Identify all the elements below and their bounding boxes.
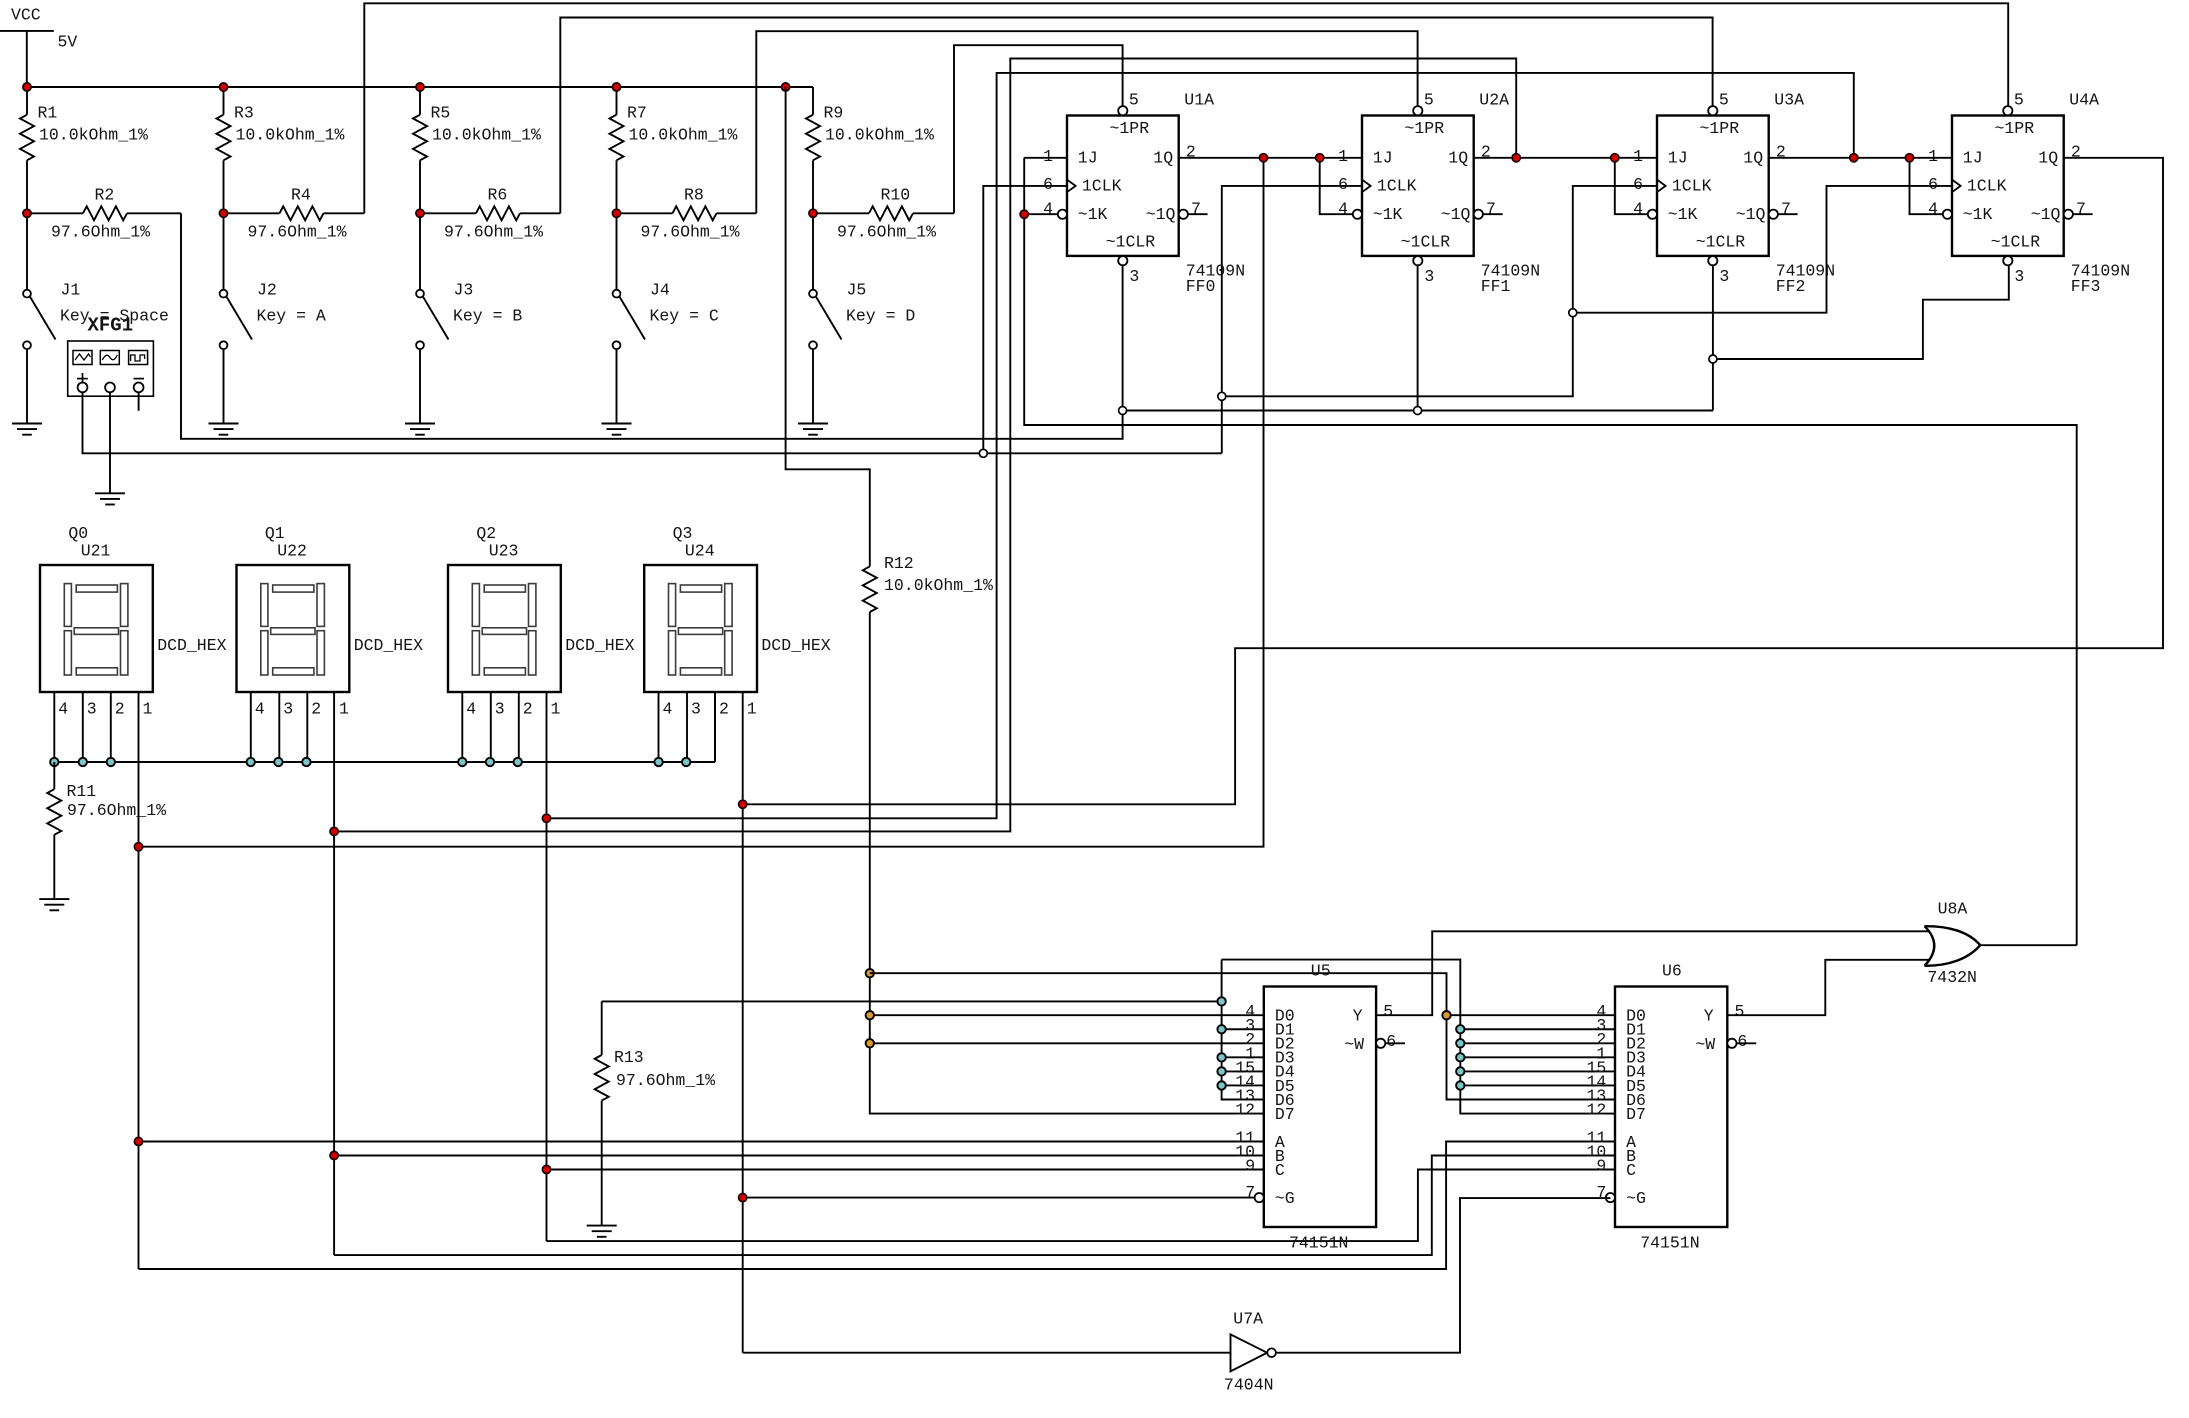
ground R11 [39,899,69,910]
wires U23 pins 4,3,2 to ground bus [462,692,519,762]
svg-text:R3: R3 [234,104,254,123]
junction dot U2A JK tie [1316,154,1324,162]
wire CLR bus [1123,410,1713,412]
svg-text:4: 4 [1043,199,1053,218]
svg-text:R5: R5 [431,104,451,123]
svg-text:Y: Y [1353,1007,1363,1026]
wire U1A ~1K tie [1024,213,1058,215]
wire display ground bus (R11 net) [54,692,715,762]
junction circles net HI at R12 [866,969,874,1048]
svg-text:1CLK: 1CLK [1967,177,2007,196]
wire U1A 1Q to U2A 1J (net Q0) [1179,157,1362,159]
svg-text:3: 3 [691,700,701,719]
svg-text:~1CLR: ~1CLR [1401,232,1451,251]
svg-text:U7A: U7A [1233,1310,1263,1329]
svg-text:U22: U22 [277,542,307,561]
svg-text:~1CLR: ~1CLR [1696,232,1746,251]
wire J3 to ground [419,349,421,423]
junction circles net LO at U6 [1456,1025,1464,1090]
junction dots resistor nodes [23,209,817,217]
svg-text:1CLK: 1CLK [1377,177,1417,196]
svg-text:Key = A: Key = A [257,307,326,326]
svg-text:Q2: Q2 [476,524,496,543]
wire U2A ~1Q stub pin 7 [1483,213,1503,215]
switch J4 Key = C [613,213,719,349]
svg-text:R10: R10 [881,186,911,205]
resistor R2 97.6Ohm [27,186,181,242]
svg-text:97.6Ohm_1%: 97.6Ohm_1% [641,223,740,242]
wire net LO bus at U5 (D1,D3,D4,D5,D6) [1222,960,1264,1100]
svg-text:U23: U23 [489,542,519,561]
svg-text:5V: 5V [58,33,78,52]
resistor R8 97.6Ohm [617,186,757,242]
svg-text:7: 7 [1191,199,1201,218]
svg-text:97.6Ohm_1%: 97.6Ohm_1% [51,223,150,242]
wire U3A ~1CLR stem pin 3 [1712,265,1714,410]
wire R13 to U5 data bus (net LO) [602,1000,1222,1002]
svg-text:1Q: 1Q [1153,149,1173,168]
svg-text:3: 3 [1129,267,1139,286]
wire U2A JK tie [1320,158,1353,214]
svg-text:J1: J1 [61,281,81,300]
junction circles display ground bus [50,758,690,766]
svg-text:1CLK: 1CLK [1082,177,1122,196]
svg-text:Q3: Q3 [673,524,693,543]
svg-text:~1PR: ~1PR [1110,119,1150,138]
svg-text:74151N: 74151N [1640,1234,1699,1253]
resistor R7 10.0kOhm [610,87,738,213]
svg-text:1J: 1J [1963,149,1983,168]
wire R12 to U5 data (net HI) [870,612,1264,1114]
svg-text:DCD_HEX: DCD_HEX [565,636,634,655]
wire J4 to ground [616,349,618,423]
svg-text:7: 7 [2076,199,2086,218]
svg-text:4: 4 [1928,199,1938,218]
wire clock branch to U3A CLK [1222,186,1657,396]
svg-text:74151N: 74151N [1289,1234,1348,1253]
wires U22 pins 4,3,2 to ground bus [251,692,307,762]
svg-text:C: C [1275,1161,1285,1180]
junction dots net Q1 [330,154,1520,1160]
wire R6 to U3A preset (net PR2) [560,18,1712,214]
svg-text:1: 1 [747,700,757,719]
svg-text:U2A: U2A [1479,91,1509,110]
svg-text:10.0kOhm_1%: 10.0kOhm_1% [432,126,541,145]
svg-text:7: 7 [1596,1183,1606,1202]
wire U4A ~1Q stub pin 7 [2073,213,2093,215]
svg-text:R12: R12 [884,554,914,573]
svg-text:U6: U6 [1662,962,1682,981]
svg-text:R13: R13 [614,1048,644,1067]
svg-text:U4A: U4A [2069,91,2099,110]
svg-text:U8A: U8A [1938,900,1968,919]
wire clock to U1A CLK [983,186,1067,453]
svg-text:3: 3 [283,700,293,719]
svg-text:2: 2 [523,700,533,719]
svg-text:~1CLR: ~1CLR [1991,232,2041,251]
svg-text:1: 1 [143,700,153,719]
svg-text:7: 7 [1781,199,1791,218]
wire XFG1 + output (clock net) [83,392,1222,454]
svg-text:1J: 1J [1373,149,1393,168]
junction dot U1A JK [1020,210,1028,218]
wires U21 pins 4,3,2 to ground bus [54,692,111,762]
svg-text:XFG1: XFG1 [88,315,134,337]
ground J5 [798,424,828,435]
resistor R5 10.0kOhm [413,87,541,213]
svg-text:97.6Ohm_1%: 97.6Ohm_1% [616,1071,715,1090]
svg-text:12: 12 [1235,1101,1255,1120]
svg-text:7: 7 [1245,1183,1255,1202]
svg-text:~1Q: ~1Q [1441,205,1471,224]
svg-text:~W: ~W [1695,1035,1715,1054]
svg-text:Y: Y [1704,1007,1714,1026]
svg-text:DCD_HEX: DCD_HEX [157,636,226,655]
resistor R11 97.6Ohm [47,762,166,899]
junction dot U4A JK tie [1905,154,1913,162]
junction dots net Q0 [134,154,1267,1146]
switch J5 Key = D [809,213,915,349]
flip-flop U1A 74109N FF0 [1043,91,1245,296]
wire net Q2 (U3A 1Q to display U23 / mux C) [547,73,1854,1241]
svg-text:~1K: ~1K [1963,205,1993,224]
svg-text:DCD_HEX: DCD_HEX [354,636,423,655]
wire J1 to ground [26,349,28,423]
svg-text:~G: ~G [1626,1189,1646,1208]
svg-text:Key = C: Key = C [650,307,719,326]
wire VCC rail [27,86,813,88]
svg-text:7432N: 7432N [1927,968,1977,987]
wire net Q3 (U4A 1Q to display U24 / mux enables) [743,158,2163,1353]
svg-text:~1PR: ~1PR [1405,119,1445,138]
svg-text:FF2: FF2 [1776,277,1806,296]
svg-text:1: 1 [551,700,561,719]
svg-text:6: 6 [1633,175,1643,194]
wire VCC to R12 [786,87,870,566]
svg-text:J3: J3 [454,281,474,300]
svg-text:R8: R8 [684,186,704,205]
junction circle net HI at U6 D0 [1442,1011,1450,1019]
flip-flop U4A 74109N FF3 [1928,91,2130,296]
junction dots net Q3 [739,800,747,1201]
wire U5 ~W stub pin 6 [1385,1042,1405,1044]
svg-text:9: 9 [1245,1156,1255,1175]
svg-text:7: 7 [1486,199,1496,218]
svg-text:U5: U5 [1311,962,1331,981]
wire net Q0 (U1A 1Q to display U21 / mux A) [139,158,1616,1269]
svg-text:1: 1 [1928,147,1938,166]
resistor R13 97.6Ohm [595,1001,715,1225]
wire U4A JK tie [1910,158,1943,214]
display U21 DCD_HEX (Q0) [40,524,227,719]
ground R13 [587,1226,617,1237]
svg-text:1: 1 [1338,147,1348,166]
svg-text:3: 3 [495,700,505,719]
svg-text:J2: J2 [257,281,277,300]
svg-text:Q1: Q1 [265,524,285,543]
display U22 DCD_HEX (Q1) [237,524,424,719]
ground J4 [602,424,632,435]
svg-text:D7: D7 [1626,1105,1646,1124]
svg-text:2: 2 [115,700,125,719]
svg-text:5: 5 [1424,91,1434,110]
svg-text:6: 6 [1737,1032,1747,1051]
svg-text:C: C [1626,1161,1636,1180]
wire net Q1 (U2A 1Q to display U22 / mux B) [334,59,1615,1256]
switch J3 Key = B [416,213,522,349]
multiplexer U6 74151N [1586,962,1747,1253]
svg-text:5: 5 [1719,91,1729,110]
svg-text:~1K: ~1K [1668,205,1698,224]
wire clock branch to U4A CLK [1573,186,1952,313]
power VCC symbol [0,6,77,88]
svg-text:97.6Ohm_1%: 97.6Ohm_1% [444,223,543,242]
or-gate U8A 7432N [1925,900,1981,988]
wire R8 to U2A preset (net PR1) [756,31,1417,213]
svg-text:6: 6 [1928,175,1938,194]
wire U1A JK tie to U8A output (net FB) [1024,158,2077,945]
svg-text:DCD_HEX: DCD_HEX [761,636,830,655]
wire U7A output to U6 ~G [1276,1198,1611,1353]
resistor R1 10.0kOhm [20,87,148,213]
inverter U7A 7404N [1224,1310,1276,1395]
display U24 DCD_HEX (Q3) [644,524,831,719]
svg-text:4: 4 [466,700,476,719]
svg-text:2: 2 [719,700,729,719]
svg-text:U24: U24 [685,542,715,561]
svg-text:5: 5 [1735,1002,1745,1021]
svg-text:3: 3 [2014,267,2024,286]
svg-text:1Q: 1Q [2038,149,2058,168]
svg-text:VCC: VCC [11,6,41,25]
ground J1 [12,424,42,435]
svg-text:~1Q: ~1Q [1736,205,1766,224]
wire net LO bridge to U6 (D1-D5,D7) [1222,960,1615,1114]
wire R2 to CLR bus (net RESET) [181,213,1123,438]
svg-text:6: 6 [1043,175,1053,194]
svg-text:~G: ~G [1275,1189,1295,1208]
svg-text:U21: U21 [81,542,111,561]
svg-text:1: 1 [1633,147,1643,166]
resistor R12 10.0kOhm [863,554,993,612]
svg-text:~1Q: ~1Q [1146,205,1176,224]
wire net HI bridge to U6 (D0,D6) [870,973,1615,1099]
junction circles CLR net [1119,355,1717,415]
svg-text:6: 6 [1338,175,1348,194]
svg-text:Q0: Q0 [68,524,88,543]
junction circles clock net [979,309,1577,458]
svg-text:1J: 1J [1078,149,1098,168]
svg-text:4: 4 [255,700,265,719]
wire U3A JK tie [1615,158,1648,214]
wire net HI to U5 D0,D2 [870,1015,1264,1043]
svg-text:3: 3 [1719,267,1729,286]
wire U6 Y to U8A input (net Y1) [1727,960,1930,1015]
svg-text:4: 4 [1338,199,1348,218]
wire U8A output [1980,944,2077,946]
svg-text:97.6Ohm_1%: 97.6Ohm_1% [67,801,166,820]
svg-text:~1PR: ~1PR [1700,119,1740,138]
wire U5 Y to U8A input (net Y0) [1376,931,1930,1015]
wire XFG1 common to ground [109,392,111,494]
wire clock riser to U2A CLK [1222,186,1362,453]
svg-text:97.6Ohm_1%: 97.6Ohm_1% [837,223,936,242]
resistor R6 97.6Ohm [420,186,560,242]
svg-text:10.0kOhm_1%: 10.0kOhm_1% [884,576,993,595]
junction dots net Q2 [542,154,1858,1174]
svg-text:R9: R9 [824,104,844,123]
svg-text:1: 1 [1043,147,1053,166]
wires U24 pins 4,3,2 to ground bus [659,692,716,762]
svg-text:5: 5 [1129,91,1139,110]
junction circles net LO at U5 [1217,997,1225,1089]
resistor R4 97.6Ohm [224,186,365,242]
ground XFG1 [95,493,125,504]
svg-text:3: 3 [1424,267,1434,286]
svg-text:~W: ~W [1344,1035,1364,1054]
svg-text:FF3: FF3 [2071,277,2101,296]
svg-text:4: 4 [1633,199,1643,218]
svg-text:~1K: ~1K [1373,205,1403,224]
ground J2 [209,424,239,435]
flip-flop U3A 74109N FF2 [1633,91,1835,296]
svg-text:~1PR: ~1PR [1995,119,2035,138]
resistor R10 97.6Ohm [813,186,954,242]
wire XFG1 - stub [138,392,140,411]
svg-text:1: 1 [339,700,349,719]
function generator XFG1 [68,315,154,397]
switch J1 Key = Space [23,213,169,349]
svg-text:R2: R2 [95,186,115,205]
svg-text:~1K: ~1K [1078,205,1108,224]
svg-text:9: 9 [1596,1156,1606,1175]
svg-text:FF0: FF0 [1186,277,1216,296]
wire R4 to U4A preset (net PR3) [364,3,2008,213]
flip-flop U2A 74109N FF1 [1338,91,1540,296]
svg-text:10.0kOhm_1%: 10.0kOhm_1% [39,126,148,145]
svg-text:FF1: FF1 [1481,277,1511,296]
svg-text:97.6Ohm_1%: 97.6Ohm_1% [248,223,347,242]
wire J2 to ground [223,349,225,423]
wire U2A ~1CLR stem pin 3 [1417,265,1419,410]
svg-text:7404N: 7404N [1224,1376,1274,1395]
svg-text:10.0kOhm_1%: 10.0kOhm_1% [236,126,345,145]
svg-text:1J: 1J [1668,149,1688,168]
svg-text:~1Q: ~1Q [2031,205,2061,224]
display U23 DCD_HEX (Q2) [448,524,635,719]
svg-text:R11: R11 [67,782,97,801]
junction dot U3A JK tie [1611,154,1619,162]
switch J2 Key = A [220,213,326,349]
svg-text:J4: J4 [650,281,670,300]
wire U1A ~1Q stub pin 7 [1188,213,1208,215]
svg-text:10.0kOhm_1%: 10.0kOhm_1% [629,126,738,145]
svg-text:1CLK: 1CLK [1672,177,1712,196]
wire U1A 1J stub [1024,157,1067,159]
wire U6 ~W stub pin 6 [1737,1042,1757,1044]
svg-text:5: 5 [2014,91,2024,110]
svg-text:R4: R4 [291,186,311,205]
svg-text:R1: R1 [38,104,58,123]
wire R10 to U1A preset (net PR0) [954,45,1123,213]
svg-text:Key = B: Key = B [453,307,522,326]
wire U3A ~1Q stub pin 7 [1778,213,1798,215]
svg-text:~1CLR: ~1CLR [1106,232,1156,251]
wire U4A ~1CLR route [1713,265,2009,359]
svg-text:6: 6 [1386,1032,1396,1051]
wire U2A 1Q to U3A 1J (net Q1) [1474,157,1657,159]
svg-text:10.0kOhm_1%: 10.0kOhm_1% [825,126,934,145]
svg-text:U3A: U3A [1774,91,1804,110]
wire U3A 1Q to U4A 1J (net Q2) [1769,157,1952,159]
wire U1A ~1CLR stem pin 3 [1122,265,1124,410]
svg-text:J5: J5 [847,281,867,300]
svg-text:5: 5 [1383,1002,1393,1021]
svg-text:12: 12 [1586,1101,1606,1120]
svg-text:4: 4 [58,700,68,719]
svg-text:D7: D7 [1275,1105,1295,1124]
resistor R9 10.0kOhm [806,87,934,213]
svg-text:Key = D: Key = D [846,307,915,326]
svg-text:1Q: 1Q [1743,149,1763,168]
junction dots VCC rail [23,83,790,91]
svg-text:R6: R6 [488,186,508,205]
ground J3 [405,424,435,435]
svg-text:4: 4 [663,700,673,719]
svg-text:U1A: U1A [1184,91,1214,110]
wire J5 to ground [812,349,814,423]
svg-text:R7: R7 [627,104,647,123]
svg-text:2: 2 [311,700,321,719]
multiplexer U5 74151N [1235,962,1396,1253]
resistor R3 10.0kOhm [217,87,345,213]
svg-text:3: 3 [87,700,97,719]
svg-text:1Q: 1Q [1448,149,1468,168]
